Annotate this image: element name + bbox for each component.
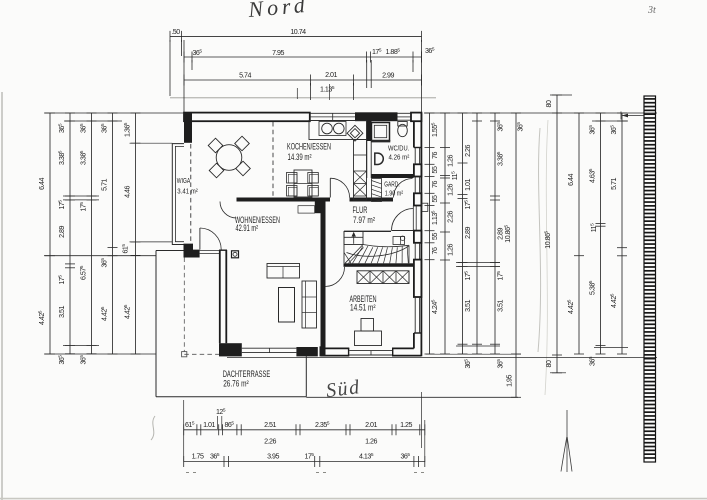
svg-text:1.01: 1.01: [203, 421, 215, 429]
svg-text:5.74: 5.74: [239, 72, 251, 80]
svg-text:5.71: 5.71: [610, 178, 618, 190]
svg-text:6.44: 6.44: [567, 174, 575, 186]
svg-text:4.26 m²: 4.26 m²: [389, 152, 410, 161]
svg-text:3t: 3t: [647, 5, 656, 16]
svg-text:26.76 m²: 26.76 m²: [223, 379, 249, 389]
svg-text:55: 55: [431, 195, 439, 202]
svg-text:76: 76: [431, 247, 439, 254]
svg-text:10.74: 10.74: [290, 28, 306, 36]
svg-text:42.91 m²: 42.91 m²: [236, 223, 259, 233]
svg-text:WC/DU.: WC/DU.: [388, 144, 409, 153]
svg-text:GARD.: GARD.: [384, 180, 400, 189]
svg-text:1.25: 1.25: [400, 421, 412, 429]
svg-text:1.01: 1.01: [464, 179, 472, 191]
svg-text:6.44: 6.44: [38, 178, 46, 190]
svg-text:2.26: 2.26: [447, 211, 455, 223]
svg-text:3.51: 3.51: [497, 300, 505, 312]
svg-text:3.41 m²: 3.41 m²: [177, 186, 198, 195]
svg-text:1.26: 1.26: [365, 438, 377, 446]
svg-text:FLUR: FLUR: [353, 205, 368, 215]
svg-text:KOCHEN/ESSEN: KOCHEN/ESSEN: [287, 142, 331, 152]
svg-text:76: 76: [431, 152, 439, 159]
svg-text:76: 76: [431, 181, 439, 188]
svg-text:7.97 m²: 7.97 m²: [353, 215, 375, 225]
svg-text:5.71: 5.71: [101, 179, 109, 191]
svg-text:7.95: 7.95: [272, 49, 284, 57]
svg-text:3.95: 3.95: [267, 453, 279, 461]
svg-text:3.51: 3.51: [464, 300, 472, 312]
svg-text:1.90 m²: 1.90 m²: [385, 188, 404, 197]
svg-text:2.01: 2.01: [365, 421, 377, 429]
svg-text:1.95: 1.95: [506, 375, 514, 387]
svg-text:2.01: 2.01: [325, 71, 337, 79]
svg-text:2.26: 2.26: [464, 145, 472, 157]
svg-text:14.51 m²: 14.51 m²: [350, 303, 376, 313]
svg-text:WIGA: WIGA: [177, 176, 191, 185]
svg-text:1.26: 1.26: [447, 155, 455, 167]
svg-text:14.39 m²: 14.39 m²: [288, 152, 312, 162]
svg-text:80: 80: [545, 360, 553, 367]
svg-text:2.89: 2.89: [58, 226, 66, 238]
svg-text:4.46: 4.46: [124, 186, 132, 198]
svg-text:55: 55: [431, 166, 439, 173]
svg-text:2.99: 2.99: [382, 72, 394, 80]
svg-text:2.26: 2.26: [264, 438, 276, 446]
svg-text:1.26: 1.26: [447, 184, 455, 196]
svg-text:.50: .50: [171, 28, 180, 36]
svg-text:80: 80: [545, 100, 553, 107]
svg-text:3.51: 3.51: [58, 306, 66, 318]
svg-text:1.75: 1.75: [192, 453, 204, 461]
svg-text:1.26: 1.26: [447, 244, 455, 256]
svg-text:55: 55: [431, 233, 439, 240]
svg-text:2.89: 2.89: [464, 227, 472, 239]
svg-text:2.51: 2.51: [264, 421, 276, 429]
svg-text:Süd: Süd: [325, 376, 362, 402]
